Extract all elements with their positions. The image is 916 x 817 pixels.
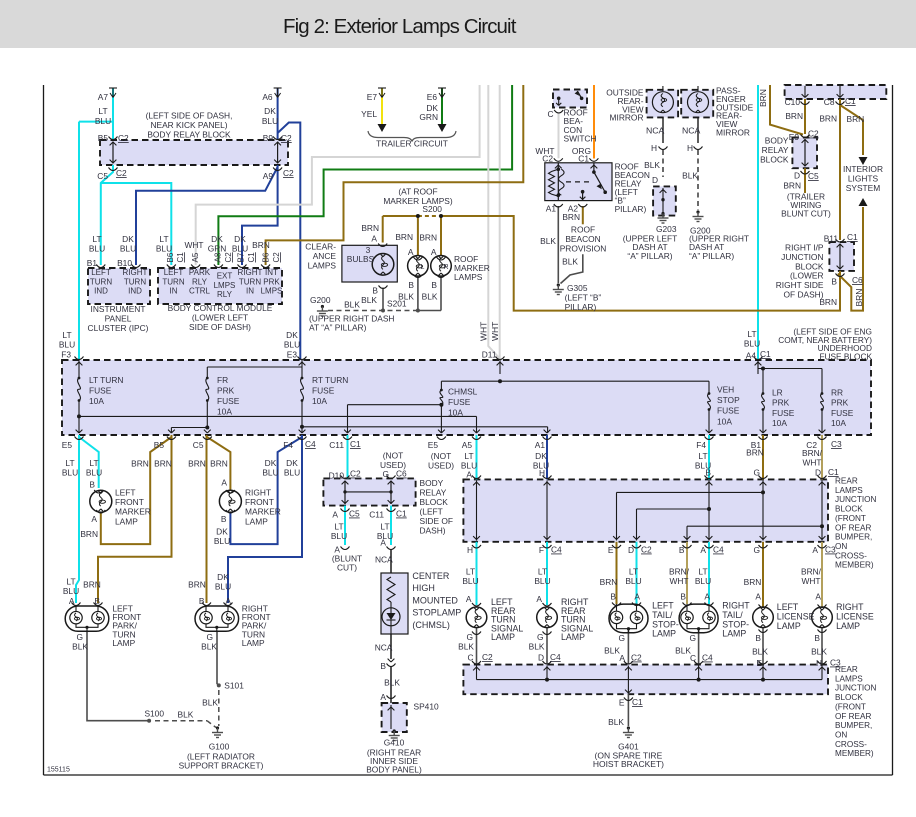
svg-text:B: B bbox=[372, 286, 378, 296]
svg-text:G410: G410 bbox=[384, 738, 405, 748]
svg-text:BLK: BLK bbox=[562, 257, 578, 267]
svg-text:BLK: BLK bbox=[608, 717, 624, 727]
svg-text:E5: E5 bbox=[62, 440, 73, 450]
svg-text:YEL: YEL bbox=[361, 109, 377, 119]
svg-text:C6: C6 bbox=[396, 469, 407, 479]
svg-text:C2: C2 bbox=[118, 133, 129, 143]
svg-text:LT: LT bbox=[92, 234, 101, 244]
svg-text:NCA: NCA bbox=[375, 643, 393, 653]
svg-text:BLU: BLU bbox=[284, 340, 300, 350]
svg-text:WHT: WHT bbox=[184, 240, 203, 250]
svg-text:LEFT: LEFT bbox=[91, 268, 111, 277]
svg-text:G: G bbox=[753, 545, 760, 555]
svg-text:MIRROR: MIRROR bbox=[716, 128, 750, 138]
svg-text:MEMBER): MEMBER) bbox=[835, 561, 874, 570]
svg-text:LAMP: LAMP bbox=[652, 629, 676, 639]
svg-text:BLK: BLK bbox=[604, 646, 620, 656]
svg-text:BRN: BRN bbox=[395, 232, 413, 242]
svg-text:D10: D10 bbox=[329, 471, 345, 481]
svg-text:B: B bbox=[89, 480, 95, 490]
svg-text:E: E bbox=[756, 658, 762, 668]
svg-text:INT: INT bbox=[265, 268, 278, 277]
svg-text:IN: IN bbox=[170, 287, 178, 296]
svg-text:A: A bbox=[225, 596, 231, 606]
svg-text:B5: B5 bbox=[98, 133, 109, 143]
svg-text:ON: ON bbox=[835, 542, 847, 551]
svg-text:(FRONT: (FRONT bbox=[835, 702, 866, 711]
svg-text:SYSTEM: SYSTEM bbox=[846, 183, 880, 193]
svg-text:10A: 10A bbox=[89, 396, 104, 406]
svg-text:BODY: BODY bbox=[420, 478, 444, 488]
svg-text:LAMP: LAMP bbox=[242, 638, 265, 648]
svg-text:C8: C8 bbox=[824, 97, 835, 107]
svg-text:FUSE: FUSE bbox=[312, 386, 335, 396]
svg-text:BLU: BLU bbox=[744, 339, 760, 349]
svg-text:SWITCH: SWITCH bbox=[564, 134, 597, 144]
svg-text:STOPLAMP: STOPLAMP bbox=[412, 608, 461, 618]
svg-text:LT: LT bbox=[747, 329, 756, 339]
svg-text:LT: LT bbox=[380, 522, 389, 532]
svg-text:STOP: STOP bbox=[717, 395, 740, 405]
svg-text:A9: A9 bbox=[263, 171, 274, 181]
svg-text:CHMSL: CHMSL bbox=[448, 387, 478, 397]
svg-text:A: A bbox=[704, 592, 710, 602]
svg-text:BUMPER,: BUMPER, bbox=[835, 721, 872, 730]
svg-text:LAMPS: LAMPS bbox=[835, 674, 863, 683]
svg-text:NCA: NCA bbox=[682, 126, 701, 136]
svg-text:H: H bbox=[539, 468, 545, 478]
svg-text:INTERIOR: INTERIOR bbox=[843, 164, 883, 174]
svg-text:BRN: BRN bbox=[252, 240, 270, 250]
svg-text:B: B bbox=[680, 592, 686, 602]
svg-text:LT: LT bbox=[698, 567, 707, 577]
svg-text:VEH: VEH bbox=[717, 385, 734, 395]
svg-text:B: B bbox=[199, 596, 205, 606]
svg-text:10A: 10A bbox=[217, 407, 232, 417]
svg-text:A: A bbox=[221, 478, 227, 488]
svg-text:LT: LT bbox=[464, 451, 473, 461]
svg-text:LAMP: LAMP bbox=[722, 629, 746, 639]
svg-text:BLK: BLK bbox=[384, 678, 400, 688]
svg-text:IND: IND bbox=[128, 287, 142, 296]
svg-text:LAMPS: LAMPS bbox=[454, 272, 483, 282]
svg-text:BLK: BLK bbox=[422, 292, 438, 302]
svg-text:S101: S101 bbox=[224, 681, 244, 691]
svg-text:C11: C11 bbox=[329, 440, 344, 450]
svg-text:BODY CONTROL MODULE: BODY CONTROL MODULE bbox=[168, 303, 273, 313]
svg-text:C2: C2 bbox=[116, 168, 127, 178]
svg-text:10A: 10A bbox=[312, 396, 327, 406]
svg-text:LMPS: LMPS bbox=[214, 281, 236, 290]
svg-text:TURN: TURN bbox=[239, 277, 261, 286]
svg-text:B: B bbox=[755, 633, 761, 643]
svg-text:D: D bbox=[815, 468, 821, 478]
svg-text:S100: S100 bbox=[144, 709, 164, 719]
svg-text:A: A bbox=[466, 594, 472, 604]
svg-text:BULBS: BULBS bbox=[347, 254, 375, 264]
svg-text:E: E bbox=[608, 545, 614, 555]
svg-text:BRN: BRN bbox=[188, 459, 206, 469]
svg-text:A: A bbox=[380, 692, 386, 702]
svg-text:BRN: BRN bbox=[746, 448, 764, 458]
svg-text:A5: A5 bbox=[191, 252, 200, 262]
svg-text:B: B bbox=[831, 277, 837, 287]
svg-text:C2: C2 bbox=[482, 652, 493, 662]
svg-text:A4: A4 bbox=[746, 351, 757, 361]
svg-text:F: F bbox=[539, 545, 544, 555]
svg-text:B9: B9 bbox=[263, 133, 274, 143]
svg-text:IN: IN bbox=[246, 287, 254, 296]
svg-text:C1: C1 bbox=[578, 154, 589, 164]
svg-text:BLU: BLU bbox=[232, 244, 248, 254]
svg-text:PRK: PRK bbox=[263, 277, 280, 286]
svg-text:FUSE BLOCK: FUSE BLOCK bbox=[819, 351, 872, 361]
svg-text:RLY: RLY bbox=[192, 277, 208, 286]
svg-text:CLUSTER (IPC): CLUSTER (IPC) bbox=[88, 323, 149, 333]
svg-text:G200: G200 bbox=[310, 295, 331, 305]
svg-text:CLEAR-: CLEAR- bbox=[305, 242, 336, 252]
svg-text:B: B bbox=[431, 280, 437, 290]
svg-text:BLOCK: BLOCK bbox=[835, 693, 863, 702]
svg-text:DK: DK bbox=[122, 234, 134, 244]
svg-text:BRN: BRN bbox=[744, 577, 762, 587]
svg-text:GRN: GRN bbox=[419, 112, 438, 122]
svg-text:NCA: NCA bbox=[646, 126, 665, 136]
svg-text:DK: DK bbox=[234, 234, 246, 244]
svg-text:BLOCK: BLOCK bbox=[835, 505, 863, 514]
svg-text:BLK: BLK bbox=[344, 300, 360, 310]
svg-text:BLK: BLK bbox=[398, 292, 414, 302]
svg-text:LAMP: LAMP bbox=[115, 516, 138, 526]
svg-text:G: G bbox=[689, 633, 696, 643]
svg-text:C1: C1 bbox=[760, 349, 771, 359]
svg-text:A6: A6 bbox=[262, 92, 273, 102]
svg-text:C1: C1 bbox=[396, 509, 407, 519]
svg-text:C5: C5 bbox=[808, 171, 819, 181]
svg-text:LAMPS: LAMPS bbox=[835, 486, 863, 495]
svg-text:PARK: PARK bbox=[189, 268, 211, 277]
svg-text:BLU: BLU bbox=[120, 244, 136, 254]
svg-text:BLU: BLU bbox=[156, 244, 172, 254]
svg-text:MARKER: MARKER bbox=[245, 507, 281, 517]
svg-text:WHT: WHT bbox=[479, 322, 489, 341]
svg-text:BRN: BRN bbox=[758, 89, 768, 107]
svg-text:LAMPS: LAMPS bbox=[308, 261, 337, 271]
svg-text:BRN: BRN bbox=[562, 212, 580, 222]
svg-text:LMPS: LMPS bbox=[261, 287, 283, 296]
svg-text:F4: F4 bbox=[696, 440, 706, 450]
svg-text:JUNCTION: JUNCTION bbox=[835, 684, 876, 693]
svg-text:BLU: BLU bbox=[625, 576, 641, 586]
svg-text:BLK: BLK bbox=[529, 642, 545, 652]
svg-text:C2: C2 bbox=[631, 653, 642, 663]
svg-text:CROSS-: CROSS- bbox=[835, 551, 867, 560]
svg-text:SIDE OF: SIDE OF bbox=[420, 516, 454, 526]
svg-text:10A: 10A bbox=[448, 407, 463, 417]
svg-text:BLU: BLU bbox=[534, 576, 550, 586]
svg-text:BLU: BLU bbox=[63, 586, 79, 596]
svg-text:E3: E3 bbox=[287, 350, 298, 360]
svg-text:MIRROR: MIRROR bbox=[610, 113, 644, 123]
svg-text:TURN: TURN bbox=[124, 277, 146, 286]
svg-text:BRN/: BRN/ bbox=[802, 448, 823, 458]
svg-text:A: A bbox=[380, 538, 386, 548]
svg-text:LT: LT bbox=[159, 234, 168, 244]
svg-text:ROOF: ROOF bbox=[571, 225, 595, 235]
svg-text:G: G bbox=[537, 632, 544, 642]
svg-text:G305: G305 bbox=[567, 283, 588, 293]
svg-text:A: A bbox=[755, 592, 761, 602]
svg-text:DK: DK bbox=[264, 106, 276, 116]
svg-text:LT: LT bbox=[334, 522, 343, 532]
svg-text:C6: C6 bbox=[852, 275, 863, 285]
svg-text:C2: C2 bbox=[350, 469, 361, 479]
svg-text:A7: A7 bbox=[98, 92, 109, 102]
svg-text:B7: B7 bbox=[237, 252, 246, 262]
svg-text:LAMP: LAMP bbox=[777, 621, 801, 631]
svg-text:A: A bbox=[371, 234, 377, 244]
svg-text:RLY: RLY bbox=[217, 290, 233, 299]
svg-text:RIGHT: RIGHT bbox=[123, 268, 148, 277]
svg-text:BRN: BRN bbox=[783, 181, 801, 191]
svg-text:C1: C1 bbox=[847, 232, 858, 242]
svg-text:RIGHT: RIGHT bbox=[245, 488, 271, 498]
svg-text:B: B bbox=[610, 592, 616, 602]
svg-text:B: B bbox=[380, 661, 386, 671]
svg-text:Fig 2: Exterior Lamps Circuit: Fig 2: Exterior Lamps Circuit bbox=[283, 15, 517, 38]
svg-text:BRN: BRN bbox=[854, 289, 864, 307]
svg-text:LAMP: LAMP bbox=[836, 621, 860, 631]
svg-text:A: A bbox=[408, 247, 414, 257]
svg-text:PILLAR): PILLAR) bbox=[565, 302, 597, 312]
svg-text:FUSE: FUSE bbox=[717, 406, 740, 416]
svg-text:BRN: BRN bbox=[154, 459, 172, 469]
svg-text:TURN: TURN bbox=[162, 277, 184, 286]
svg-text:TURN: TURN bbox=[90, 277, 112, 286]
svg-text:BRN: BRN bbox=[80, 529, 98, 539]
svg-text:FUSE: FUSE bbox=[89, 386, 112, 396]
svg-text:C4: C4 bbox=[305, 439, 316, 449]
svg-text:BRN: BRN bbox=[785, 111, 803, 121]
svg-text:F4: F4 bbox=[283, 440, 293, 450]
svg-text:E5: E5 bbox=[428, 440, 439, 450]
svg-text:WHT: WHT bbox=[490, 322, 500, 341]
svg-text:LR: LR bbox=[772, 388, 783, 398]
svg-text:C2: C2 bbox=[283, 168, 294, 178]
svg-text:REAR: REAR bbox=[835, 477, 858, 486]
svg-text:D: D bbox=[538, 653, 544, 663]
svg-text:LT TURN: LT TURN bbox=[89, 375, 123, 385]
svg-text:NCA: NCA bbox=[375, 555, 393, 565]
svg-text:A5: A5 bbox=[462, 440, 473, 450]
svg-text:CROSS-: CROSS- bbox=[835, 740, 867, 749]
svg-text:LT: LT bbox=[629, 567, 638, 577]
svg-text:BLU: BLU bbox=[331, 531, 347, 541]
svg-text:A: A bbox=[812, 545, 818, 555]
svg-text:R: R bbox=[444, 264, 449, 271]
svg-text:C10: C10 bbox=[785, 97, 801, 107]
svg-text:C4: C4 bbox=[550, 652, 561, 662]
svg-text:PRK: PRK bbox=[831, 398, 849, 408]
svg-text:JUNCTION: JUNCTION bbox=[835, 495, 876, 504]
svg-text:PROVISION: PROVISION bbox=[560, 244, 607, 254]
svg-text:D: D bbox=[794, 171, 800, 181]
svg-text:MOUNTED: MOUNTED bbox=[412, 595, 458, 605]
svg-text:(CHMSL): (CHMSL) bbox=[412, 620, 450, 630]
svg-text:BLK: BLK bbox=[540, 236, 556, 246]
svg-text:C1: C1 bbox=[845, 96, 856, 106]
svg-text:C: C bbox=[467, 653, 473, 663]
svg-text:BRN: BRN bbox=[600, 577, 618, 587]
svg-text:G100: G100 bbox=[209, 742, 230, 752]
svg-text:FUSE: FUSE bbox=[831, 408, 854, 418]
svg-text:BLU: BLU bbox=[462, 576, 478, 586]
svg-text:BLUNT CUT): BLUNT CUT) bbox=[781, 209, 831, 219]
svg-text:WHT: WHT bbox=[802, 458, 821, 468]
svg-text:LT: LT bbox=[698, 451, 707, 461]
svg-text:C4: C4 bbox=[702, 653, 713, 663]
svg-text:G: G bbox=[76, 632, 83, 642]
svg-text:BLU: BLU bbox=[86, 468, 102, 478]
svg-text:A: A bbox=[91, 514, 97, 524]
svg-text:“A” PILLAR): “A” PILLAR) bbox=[689, 251, 734, 261]
svg-text:H: H bbox=[816, 658, 822, 668]
svg-text:OF REAR: OF REAR bbox=[835, 712, 871, 721]
svg-text:LT: LT bbox=[538, 567, 547, 577]
svg-text:BLU: BLU bbox=[95, 116, 111, 126]
svg-text:D: D bbox=[628, 545, 634, 555]
svg-text:B: B bbox=[94, 596, 100, 606]
svg-text:BLU: BLU bbox=[89, 244, 105, 254]
svg-text:A: A bbox=[466, 470, 472, 480]
svg-text:B5: B5 bbox=[154, 440, 165, 450]
svg-text:DK: DK bbox=[265, 458, 277, 468]
svg-text:C2: C2 bbox=[808, 129, 819, 139]
svg-text:BLK: BLK bbox=[72, 642, 88, 652]
svg-text:DK: DK bbox=[286, 330, 298, 340]
svg-text:C5: C5 bbox=[97, 171, 108, 181]
svg-text:BLU: BLU bbox=[284, 468, 300, 478]
svg-text:RR: RR bbox=[831, 388, 843, 398]
svg-text:BLU: BLU bbox=[262, 468, 278, 478]
svg-text:RIGHT: RIGHT bbox=[238, 268, 263, 277]
svg-text:BUMPER,: BUMPER, bbox=[835, 533, 872, 542]
svg-text:G: G bbox=[466, 632, 473, 642]
svg-text:(LEFT “B”: (LEFT “B” bbox=[565, 293, 602, 303]
svg-text:BLU: BLU bbox=[59, 340, 75, 350]
svg-text:BRN: BRN bbox=[361, 223, 379, 233]
svg-text:E: E bbox=[619, 698, 625, 708]
svg-text:BLK: BLK bbox=[201, 642, 217, 652]
svg-text:BRN/: BRN/ bbox=[801, 567, 822, 577]
svg-text:C: C bbox=[690, 653, 696, 663]
svg-text:A: A bbox=[815, 592, 821, 602]
svg-text:BLK: BLK bbox=[752, 647, 768, 657]
svg-text:MEMBER): MEMBER) bbox=[835, 749, 874, 758]
svg-text:B6: B6 bbox=[166, 252, 175, 262]
svg-text:C5: C5 bbox=[349, 509, 360, 519]
svg-text:DK: DK bbox=[217, 572, 229, 582]
svg-text:A: A bbox=[536, 594, 542, 604]
svg-text:B: B bbox=[408, 280, 414, 290]
svg-text:PRK: PRK bbox=[772, 398, 790, 408]
svg-text:BRN: BRN bbox=[419, 233, 437, 243]
svg-text:10A: 10A bbox=[717, 416, 732, 426]
svg-text:LT: LT bbox=[62, 330, 71, 340]
svg-text:HOIST BRACKET): HOIST BRACKET) bbox=[593, 759, 664, 769]
svg-text:(LOWER LEFT: (LOWER LEFT bbox=[192, 313, 248, 323]
svg-text:BLK: BLK bbox=[644, 160, 660, 170]
svg-text:FUSE: FUSE bbox=[448, 397, 471, 407]
svg-text:H: H bbox=[651, 143, 657, 153]
svg-text:SIDE OF DASH): SIDE OF DASH) bbox=[189, 322, 251, 332]
svg-text:LEFT: LEFT bbox=[164, 268, 184, 277]
svg-text:ANCE: ANCE bbox=[313, 251, 337, 261]
svg-text:BRN: BRN bbox=[131, 459, 149, 469]
svg-text:C3: C3 bbox=[831, 439, 842, 449]
svg-text:BRN: BRN bbox=[819, 297, 837, 307]
svg-text:A8: A8 bbox=[214, 252, 223, 262]
svg-text:OF DASH): OF DASH) bbox=[783, 290, 823, 300]
svg-text:WHT: WHT bbox=[801, 576, 820, 586]
svg-text:BLK: BLK bbox=[361, 295, 377, 305]
svg-text:FRONT: FRONT bbox=[115, 497, 144, 507]
svg-text:BLU: BLU bbox=[215, 582, 231, 592]
svg-text:BLK: BLK bbox=[682, 171, 698, 181]
svg-text:G203: G203 bbox=[656, 224, 677, 234]
svg-text:DASH): DASH) bbox=[420, 526, 446, 536]
svg-text:B6: B6 bbox=[262, 252, 271, 262]
svg-text:BEACON: BEACON bbox=[565, 234, 600, 244]
svg-text:BRN: BRN bbox=[83, 580, 101, 590]
svg-text:INSTRUMENT: INSTRUMENT bbox=[91, 304, 146, 314]
svg-text:B10: B10 bbox=[117, 258, 132, 268]
svg-text:155115: 155115 bbox=[47, 767, 70, 774]
svg-text:C5: C5 bbox=[193, 440, 204, 450]
svg-text:A: A bbox=[634, 592, 640, 602]
svg-text:C1: C1 bbox=[350, 439, 361, 449]
svg-text:RELAY: RELAY bbox=[420, 488, 447, 498]
svg-text:BODY RELAY BLOCK: BODY RELAY BLOCK bbox=[147, 129, 231, 139]
svg-text:AT “A” PILLAR): AT “A” PILLAR) bbox=[309, 323, 367, 333]
svg-text:CUT): CUT) bbox=[337, 563, 357, 573]
svg-text:BLU: BLU bbox=[262, 116, 278, 126]
svg-text:BLU: BLU bbox=[695, 576, 711, 586]
svg-text:E6: E6 bbox=[427, 92, 438, 102]
svg-text:DK: DK bbox=[216, 527, 228, 537]
svg-text:BLK: BLK bbox=[178, 710, 194, 720]
svg-text:SP410: SP410 bbox=[414, 702, 439, 712]
svg-text:USED): USED) bbox=[428, 460, 454, 470]
svg-text:FR: FR bbox=[217, 375, 228, 385]
svg-text:IND: IND bbox=[94, 287, 108, 296]
svg-text:C4: C4 bbox=[713, 545, 724, 555]
svg-text:C4: C4 bbox=[551, 545, 562, 555]
svg-text:LT: LT bbox=[89, 458, 98, 468]
svg-text:G: G bbox=[618, 633, 625, 643]
svg-text:BRN/: BRN/ bbox=[669, 567, 690, 577]
svg-text:DK: DK bbox=[535, 451, 547, 461]
svg-text:C: C bbox=[547, 109, 553, 119]
svg-text:G: G bbox=[753, 468, 760, 478]
svg-text:LEFT: LEFT bbox=[115, 488, 135, 498]
svg-text:FUSE: FUSE bbox=[217, 396, 240, 406]
svg-text:BODY PANEL): BODY PANEL) bbox=[366, 765, 422, 775]
svg-text:LAMP: LAMP bbox=[112, 638, 135, 648]
svg-text:C2: C2 bbox=[224, 252, 233, 263]
svg-text:BLOCK: BLOCK bbox=[420, 497, 449, 507]
svg-text:G: G bbox=[206, 632, 213, 642]
